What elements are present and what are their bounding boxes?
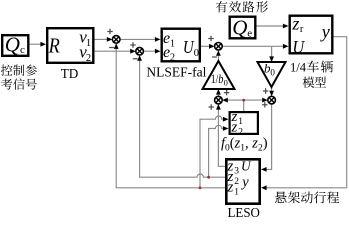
svg-text:y: y (240, 175, 249, 191)
svg-text:1/4: 1/4 (290, 60, 307, 74)
svg-text:c: c (20, 44, 25, 56)
svg-text:U: U (292, 37, 305, 57)
svg-text:2: 2 (234, 177, 239, 187)
svg-text:0: 0 (224, 78, 228, 88)
svg-text:z: z (291, 13, 299, 33)
svg-text:z: z (227, 180, 234, 196)
svg-text:r: r (300, 24, 304, 35)
svg-text:R: R (48, 34, 60, 58)
svg-text:LESO: LESO (228, 205, 260, 220)
svg-text:2: 2 (170, 53, 175, 64)
svg-text:1: 1 (170, 39, 175, 50)
svg-text:3: 3 (234, 167, 239, 177)
svg-text:y: y (320, 21, 330, 41)
svg-text:1: 1 (238, 117, 243, 127)
svg-text:NLSEF-fal: NLSEF-fal (146, 65, 206, 80)
svg-text:0: 0 (270, 67, 275, 77)
svg-text:z: z (231, 120, 238, 136)
svg-text:Q: Q (232, 15, 247, 39)
svg-text:Q: Q (5, 32, 20, 56)
svg-text:2: 2 (86, 53, 91, 64)
svg-text:e: e (247, 27, 252, 39)
svg-text:U: U (241, 160, 251, 175)
svg-text:0: 0 (194, 48, 199, 59)
svg-text:TD: TD (61, 67, 79, 82)
svg-text:U: U (183, 37, 195, 57)
svg-text:1: 1 (234, 188, 239, 198)
